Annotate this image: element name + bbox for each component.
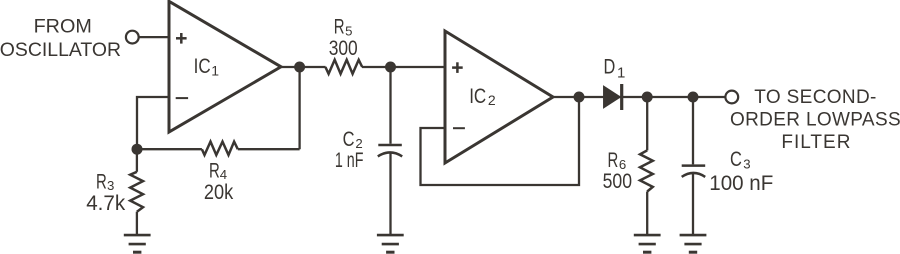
wire C3 to ground (692, 174, 694, 236)
input terminal (126, 31, 139, 44)
node TO SECOND-ORDER LOWPASS FILTER label (730, 87, 900, 153)
capacitor C2 (335, 128, 402, 172)
op-amp IC1 (169, 1, 281, 132)
wire node to C3 top plate (692, 97, 694, 164)
svg-text:1: 1 (211, 63, 219, 79)
svg-text:20k: 20k (204, 181, 234, 204)
node IC1 output junction (294, 62, 305, 73)
wire feedback vertical from output node (298, 67, 300, 149)
diode D1 (604, 55, 626, 110)
wire R5 to IC2 + input (362, 66, 445, 68)
node R3/R4 junction (132, 144, 143, 155)
svg-text:100 nF: 100 nF (709, 172, 773, 195)
node R6 junction (642, 92, 653, 103)
svg-text:1: 1 (617, 65, 625, 82)
node IC2 output junction (574, 92, 585, 103)
resistor R6 (603, 149, 653, 193)
svg-text:D: D (604, 55, 616, 78)
svg-text:FROM: FROM (34, 15, 92, 37)
wire node to C2 top plate (389, 67, 391, 144)
node C3 junction (688, 92, 699, 103)
wire IC1 output to R5 (281, 66, 326, 68)
svg-text:ORDER LOWPASS: ORDER LOWPASS (730, 110, 900, 131)
wire node to R3 (136, 149, 138, 172)
svg-text:3: 3 (743, 156, 750, 171)
wire R4 left segment to node (137, 148, 202, 150)
wire input to IC1 + (139, 36, 170, 38)
pin + of IC2 (452, 62, 463, 73)
svg-text:300: 300 (329, 37, 358, 60)
op-amp IC2 (445, 31, 553, 163)
svg-text:2: 2 (488, 92, 496, 108)
svg-text:IC: IC (194, 55, 211, 78)
svg-text:FILTER: FILTER (781, 132, 851, 153)
svg-text:R: R (608, 149, 619, 172)
svg-text:TO SECOND-: TO SECOND- (754, 87, 876, 108)
output terminal (725, 91, 738, 104)
ground under R6 (634, 235, 661, 252)
node C2 junction (385, 62, 396, 73)
wire node to R6 (646, 97, 648, 150)
wire R6 to ground (646, 192, 648, 236)
ground under C3 (680, 235, 707, 252)
wire C2 to ground (389, 153, 391, 235)
svg-text:1 nF: 1 nF (335, 149, 364, 172)
wire IC1 - input feedback (137, 97, 169, 149)
pin + of IC1 (176, 33, 187, 44)
svg-text:4.7k: 4.7k (86, 192, 126, 215)
svg-text:3: 3 (107, 178, 114, 193)
svg-text:500: 500 (603, 170, 632, 193)
svg-text:R: R (209, 159, 220, 182)
wire IC2 feedback loop (421, 97, 580, 185)
svg-text:C: C (343, 128, 355, 151)
resistor R4 (202, 142, 238, 204)
svg-text:C: C (730, 148, 742, 171)
wire R3 to ground (136, 212, 138, 235)
svg-text:R: R (334, 15, 345, 38)
wire IC2 output to terminal (553, 96, 725, 98)
svg-text:R: R (96, 170, 107, 193)
capacitor C3 (682, 148, 774, 195)
svg-text:IC: IC (469, 85, 486, 108)
svg-text:OSCILLATOR: OSCILLATOR (0, 39, 121, 61)
resistor R3 (86, 170, 143, 215)
node FROM OSCILLATOR label (0, 15, 121, 61)
ground under R3 (124, 235, 151, 252)
resistor R5 (325, 15, 362, 73)
pin - of IC2 (453, 127, 465, 129)
svg-text:4: 4 (220, 167, 227, 182)
wire R4 right segment (238, 148, 300, 150)
pin - of IC1 (176, 97, 188, 99)
ground under C2 (377, 235, 404, 252)
